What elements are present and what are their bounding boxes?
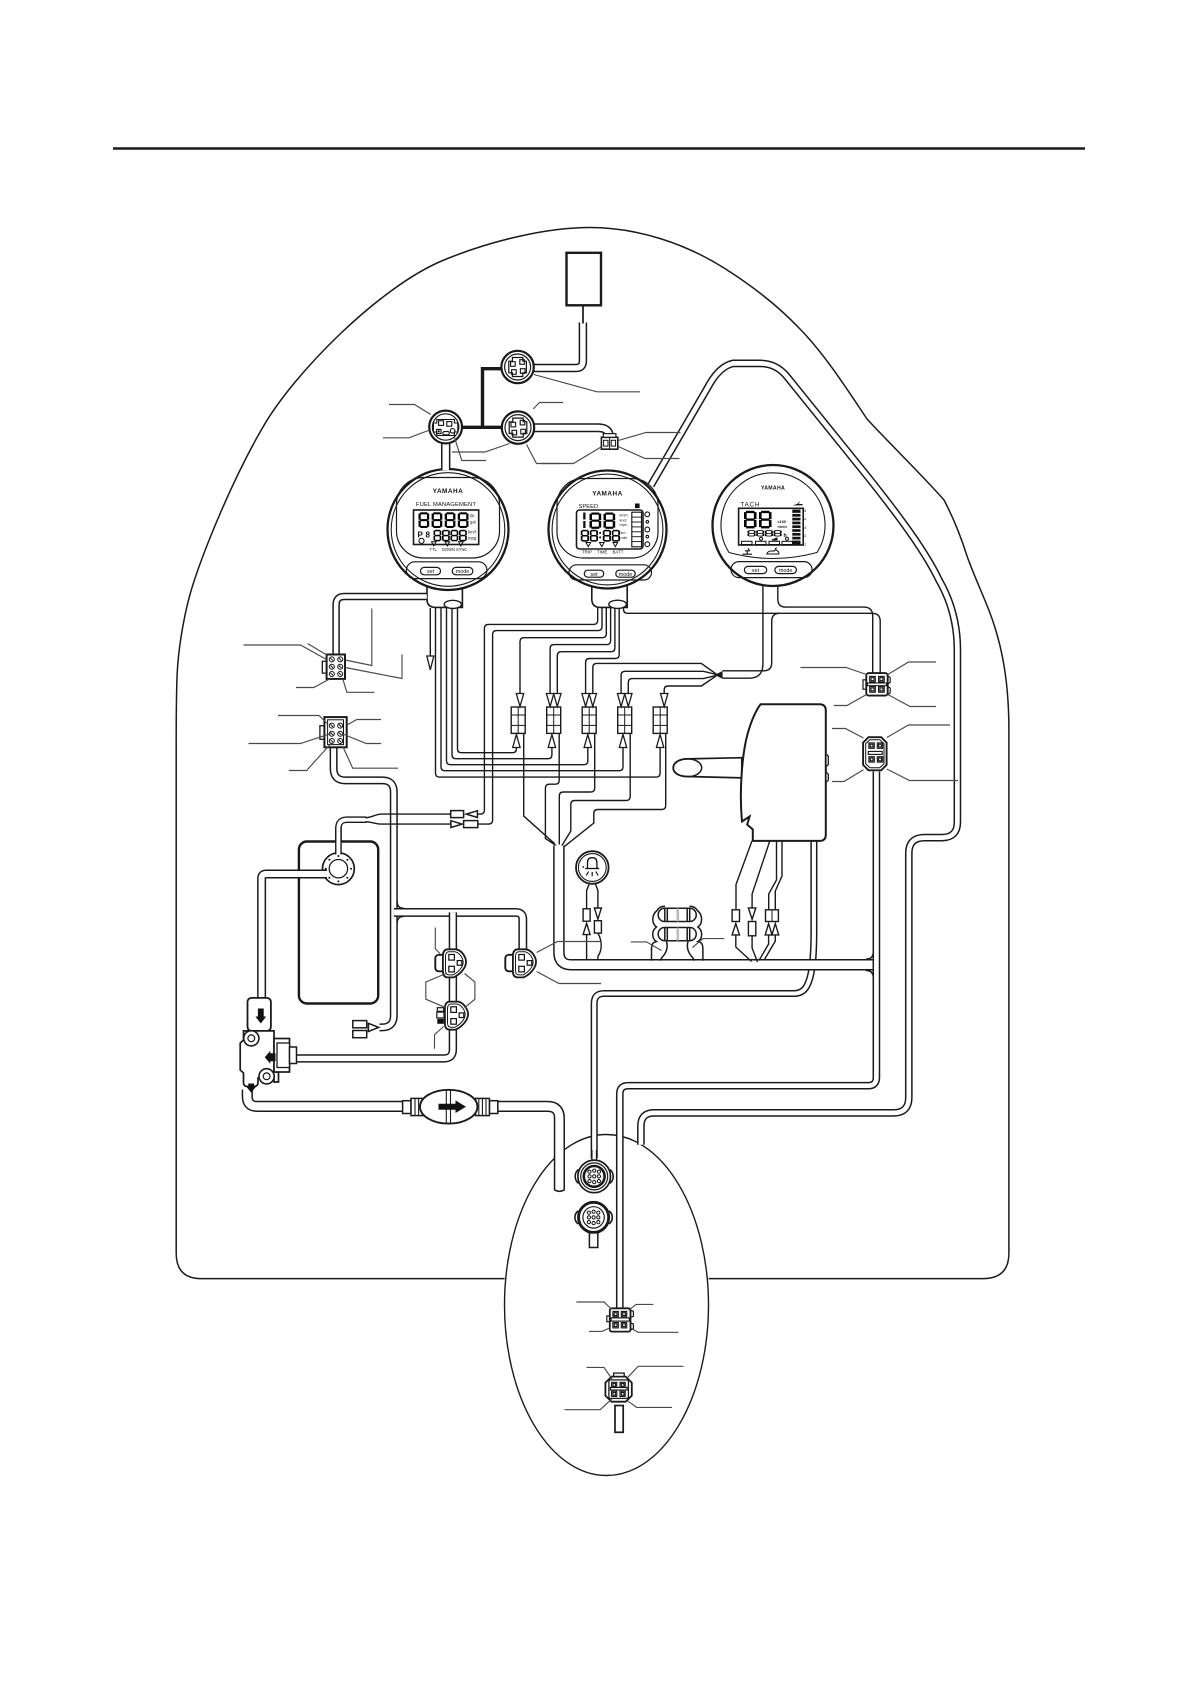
trim coupler connector A: [435, 949, 466, 977]
leader trim B bottom-right: [537, 972, 601, 984]
trim coupler connector B: [505, 949, 536, 977]
leader E2 bottom-right: [628, 1401, 672, 1407]
svg-text:l/h: l/h: [470, 514, 475, 519]
round connector RC2 (fuel gauge plug): [429, 411, 462, 444]
leader CN2 bottom-right: [343, 746, 398, 768]
wire: thick link RC2 to RC3: [462, 426, 503, 429]
svg-text:•1: •1: [803, 542, 806, 546]
leader trim A vertical: [435, 928, 440, 954]
wire: fuel hose sensor to primer bulb: [247, 1090, 403, 1107]
wire: battery cable remote control to round connector R1: [594, 841, 814, 1158]
horn mate bullet female: [594, 908, 601, 933]
wire: bullet column 1 lower lead to V merge: [524, 734, 555, 844]
wire: bullet column 5 lower lead to V merge: [564, 734, 665, 847]
square connector SQ (trim switch coupler): [601, 434, 617, 450]
svg-text:YAMAHA: YAMAHA: [433, 488, 463, 495]
U1 mode button: [452, 567, 473, 574]
U3 digits 88: [744, 511, 757, 529]
clamp trumpet left: [661, 942, 668, 961]
wire: tach cable Q bottom line and P inner line: [722, 613, 880, 672]
leader CN4 top-right: [887, 725, 950, 738]
mating hexagon around trim connectors A and C: [426, 974, 446, 1008]
svg-text:mode: mode: [456, 569, 470, 575]
fuel primer bulb: [403, 1090, 498, 1124]
U3 trim tilt icon: [743, 548, 753, 554]
leader CN3 bottom-left: [834, 695, 867, 706]
leader CN1 bottom-right: [343, 679, 375, 693]
wire: thick link junction up to RC1: [483, 369, 503, 428]
leader clamp right: [693, 939, 725, 948]
wire: bullet column 4 lower lead to V merge: [562, 734, 630, 846]
svg-text:r/min: r/min: [778, 525, 788, 529]
svg-text:TACH: TACH: [741, 502, 761, 509]
wire: tach cable P outer line: [722, 586, 763, 678]
U3 small digits 8888 h: [748, 530, 756, 536]
leader CN1 right-top with vertical: [345, 609, 372, 666]
bullet connector pair column 1: [511, 707, 525, 733]
wire: fuel sender fork upper lead: [366, 814, 451, 818]
wire: suction tube segment over tank edge: [289, 870, 327, 879]
U1 button well: [406, 562, 487, 579]
wire: trim cable from lower 6-pin connector to spade connector: [334, 748, 394, 1028]
round connector RC3 (extension coupler): [502, 411, 534, 443]
svg-text:BATT: BATT: [613, 550, 624, 555]
U3 mode button: [775, 566, 797, 573]
leader E1 top-right: [629, 1304, 654, 1310]
fuse capsule upper: [658, 908, 696, 921]
svg-text:DOWN: DOWN: [442, 547, 455, 552]
svg-text:set: set: [590, 572, 598, 578]
U2 digit 1: [583, 513, 585, 520]
leader CN2 right-top: [347, 720, 381, 726]
svg-text:•2: •2: [803, 534, 806, 538]
junction fillet trim branch bottom: [397, 916, 404, 923]
svg-text:x100: x100: [778, 520, 786, 524]
fuel gauge lead hollow down arrow: [427, 656, 434, 670]
horn lead bullet male: [583, 909, 590, 935]
U2 mode button: [616, 570, 635, 577]
leader SQ bottom-right: [618, 447, 679, 459]
wire: merged bundle from V down and across to vertical cable: [559, 846, 874, 965]
U2 face plate: [557, 479, 658, 559]
4-pin connector CN3 (upper, from tach): [863, 673, 890, 696]
U1 LCD bezel: [414, 510, 479, 545]
leader RC2 top-left: [389, 405, 431, 415]
leader E2 top-right: [628, 1366, 684, 1377]
fuel pickup tube fitting: [248, 998, 271, 1031]
U1 set button: [421, 567, 441, 574]
R2 stub: [589, 1233, 597, 1248]
junction fillet trim branch top: [397, 902, 404, 909]
U3 bar scale labels: [803, 509, 806, 546]
svg-text:mpg: mpg: [468, 536, 477, 541]
svg-text:set: set: [752, 568, 760, 574]
U3 trim icon: [793, 501, 803, 506]
remote control box: [673, 704, 828, 841]
wire: fuel sender fork lower lead: [366, 822, 451, 824]
boat hull outline: [176, 228, 1009, 1279]
U2 LCD bezel: [577, 510, 644, 549]
leader CN3 top-right: [888, 662, 936, 675]
wire: fuel gauge left cable to upper 6-pin connector: [336, 597, 427, 656]
leader RC3 bottom-left: [452, 444, 510, 453]
wire: fan lead 4 to bullet column 5: [664, 676, 716, 693]
wire: fuel sender electric cable to fork: [338, 820, 366, 854]
wire: trim pass-through cable through connectors A and C to flow sensor: [294, 912, 453, 1058]
U2 small digits 88:88: [581, 530, 589, 542]
svg-text:SPEED: SPEED: [579, 504, 599, 510]
remote wire a with bullets: [736, 841, 752, 909]
clamp bracket outline right: [689, 906, 703, 961]
U2 battery icon: [635, 504, 640, 509]
wire: main engine harness speed gauge to motor: [641, 363, 958, 1144]
leader CN2 bottom-left: [289, 743, 332, 771]
bullet connector pair column 3: [582, 707, 596, 733]
leader trim C: [435, 1027, 444, 1049]
round connector RC1 (main harness coupler top): [501, 351, 533, 383]
wire: fuel gauge top stem to round connector RC2: [441, 440, 450, 470]
leader CN2 top-left: [278, 716, 328, 725]
E2 stub: [615, 1406, 623, 1433]
leader clamp left: [631, 942, 662, 951]
page top rule: [113, 147, 1085, 150]
remote body side tabs: [827, 755, 829, 782]
wire: fuel sender suction tube: [262, 874, 326, 999]
U2 boot: [592, 583, 627, 607]
leader CN1 right-mid with vertical: [345, 655, 402, 679]
clamp bracket outline left: [652, 906, 666, 961]
wire: round connector RC1 cable to battery box: [534, 323, 583, 369]
U3 body circles: [713, 465, 834, 586]
remote wire c pair with wide bullet: [769, 841, 782, 910]
wire: tach cable Q top line: [778, 586, 873, 673]
svg-text:•3: •3: [803, 526, 806, 530]
U1 small digits 8888: [434, 530, 442, 542]
U2 indicator circles: [645, 512, 650, 517]
U1 LCD bottom icons: [419, 538, 424, 543]
svg-text:8: 8: [426, 531, 431, 540]
wire: fuel gauge fw5 to bullet column 5 lower: [436, 608, 661, 777]
wire: sender cable segment over tank edge: [335, 827, 342, 855]
U2 bar graph: [632, 512, 642, 547]
svg-text:SYNC: SYNC: [456, 547, 467, 552]
leader CN1 bottom-left: [296, 679, 330, 688]
U1 body circles: [388, 469, 509, 590]
fuel tank: [299, 842, 378, 1004]
outboard motor ellipse: [505, 1135, 709, 1476]
wire: fuel gauge fw4 to bullet column 4 lower: [441, 608, 623, 771]
bullet connector pair column 5: [653, 707, 667, 733]
junction fillet bundle to vertical cable top: [866, 952, 873, 959]
U3 LCD bezel: [739, 508, 804, 545]
warning horn: [576, 851, 609, 909]
U3 oil icon: [767, 548, 779, 554]
leader CN2 right-mid: [343, 734, 382, 744]
battery / main switch box: [567, 253, 602, 305]
leader E2 top-left: [587, 1367, 613, 1379]
bullet connector pair column 4: [618, 707, 632, 733]
wire: fan lead 1 to bullet column 3 right: [593, 663, 716, 693]
svg-text:TTL: TTL: [430, 547, 438, 552]
leader trim B top-right: [537, 942, 600, 953]
svg-text:mode: mode: [619, 572, 633, 578]
svg-text:km/l: km/l: [468, 530, 476, 535]
U3 LCD bottom cells: [742, 537, 793, 544]
spade terminal connector with arrow: [353, 1021, 379, 1038]
horn lead wire below: [586, 935, 588, 960]
clamp trumpet right: [687, 942, 694, 961]
U1 LCD digits 8888: [419, 512, 430, 528]
leader E2 bottom-left: [565, 1399, 613, 1410]
wire: fuel gauge fw1 to bullet column 1 lower: [458, 608, 517, 753]
svg-text:km/h: km/h: [620, 514, 628, 518]
U2 body circles: [549, 471, 667, 589]
leader RC1: [534, 375, 640, 392]
leader RC2 bottom-right: [455, 438, 487, 461]
leader CN4 top-left: [832, 729, 863, 739]
wire: speed w7 joining tach channel: [624, 608, 781, 613]
leader CN1 top-left short: [308, 644, 327, 656]
U3 bar graph dark: [792, 510, 800, 545]
leader RC3 bottom-right: [527, 445, 561, 464]
svg-text:•5: •5: [803, 509, 806, 513]
U3 button well: [731, 562, 812, 578]
horn mate wire slack loop: [598, 933, 601, 960]
wire: battery single lead: [582, 306, 584, 324]
fuse capsule lower: [658, 928, 696, 941]
motor connector E2: [605, 1373, 631, 1432]
gauge U1 fuel management meter: [388, 469, 509, 609]
U3 set button: [744, 566, 766, 573]
wire: round connector RC3 cable to square connector SQ: [534, 428, 609, 438]
wire: fuel hose primer bulb to motor: [497, 1106, 559, 1189]
round connector R1 (main harness to motor): [575, 1160, 613, 1193]
remote control lever: [673, 758, 742, 778]
gauge U3 tachometer: [713, 465, 834, 586]
leader SQ bottom-left: [542, 447, 602, 464]
gauge U2 speed meter: [549, 471, 667, 609]
bullet connector pair column 2: [547, 707, 561, 733]
wire: R1 cable short segment above connector: [591, 1150, 597, 1162]
leader CN4 bottom-right: [887, 769, 958, 781]
motor connector E1: [607, 1308, 634, 1331]
svg-text:YAMAHA: YAMAHA: [592, 491, 622, 498]
U1 face plate: [397, 478, 500, 559]
svg-text:•4: •4: [803, 518, 806, 522]
6-pin connector CN2 (lower): [320, 717, 347, 747]
fuel sender unit on tank: [289, 827, 354, 885]
leader E1 top-left: [576, 1302, 611, 1309]
wire: fuel gauge fw3 to bullet column 3 lower: [447, 608, 588, 765]
U2 LCD arrows: [586, 543, 618, 547]
6-pin connector CN1 (upper): [322, 655, 345, 679]
svg-text:mode: mode: [779, 568, 793, 574]
U2 set button: [584, 570, 603, 577]
wire: fuel gauge fw2 to bullet column 2 lower: [452, 608, 552, 759]
wire: speed w3 to bullet column 1: [520, 608, 606, 694]
svg-text:km: km: [621, 531, 626, 535]
wire: speed w4 to bullet column 2 left: [550, 608, 611, 694]
leader RC3 top-right: [533, 403, 563, 410]
U3 face plate: [721, 473, 825, 559]
svg-text:TRIP: TRIP: [582, 550, 592, 555]
svg-text:knot: knot: [620, 518, 627, 522]
svg-text:TIME: TIME: [597, 550, 608, 555]
leader E1 bottom-left: [589, 1328, 611, 1332]
U2 digits 88: [590, 513, 602, 529]
trim coupler connector C: [437, 1002, 468, 1030]
U1 boot: [427, 584, 462, 607]
svg-text:mph: mph: [620, 523, 627, 527]
leader CN1 top-left long: [244, 645, 327, 660]
junction fillet bundle to vertical cable bottom: [866, 971, 873, 978]
wire: speed w6 to bullet column 3 left: [586, 608, 620, 694]
leader RC2 left: [383, 430, 431, 438]
wire: fuel gauge lead with down arrow: [429, 608, 431, 656]
round connector R2 (motor pigtail): [575, 1202, 612, 1247]
fuel hose open end: [554, 1190, 565, 1192]
wire: speed w2 to fuel sender coupler lower: [478, 608, 602, 824]
wire: bullet column 3 lower lead to V merge: [559, 734, 594, 845]
harness clamp with fuse capsules: [652, 906, 703, 961]
svg-text:FUEL MANAGEMENT: FUEL MANAGEMENT: [416, 502, 476, 508]
remote control body: [741, 704, 826, 841]
svg-text:gal: gal: [470, 520, 476, 525]
remote wire b with bullets: [752, 841, 770, 908]
wire: fan lead 3 to bullet column 4 right: [628, 675, 716, 693]
fan joint solder point: [714, 671, 722, 679]
U2 button well: [569, 565, 652, 580]
wire: trim branch to connector B: [394, 912, 523, 949]
leader E1 bottom-right: [631, 1328, 679, 1332]
horn bell icon: [588, 858, 597, 869]
fuel sender coupler upper: rect and left-pointing arrow: [451, 811, 478, 818]
svg-text:mile: mile: [621, 536, 628, 540]
leader CN3 top-left: [801, 668, 867, 675]
wire: bullet column 2 lower lead to V merge: [545, 734, 559, 846]
wire: fan lead 2 to bullet column 4 left: [621, 671, 716, 693]
leader SQ top-right: [618, 433, 680, 441]
wire: speed w1 to fuel sender coupler upper: [478, 608, 598, 814]
4-pin connector CN4 (lower, to motor loom): [863, 737, 887, 770]
fuel flow sensor assembly: [240, 1031, 296, 1093]
fuel sender coupler lower: right-pointing arrow and rect: [451, 821, 478, 828]
wire: cable from lower 4-pin connector down, across and into motor connector E1: [620, 772, 877, 1308]
leader CN2 mid-left: [249, 734, 331, 744]
wire: speed w5 to bullet column 2 right: [557, 608, 615, 694]
leader CN3 bottom-right: [888, 695, 936, 707]
leader CN4 bottom-left: [832, 770, 863, 782]
svg-text:set: set: [427, 569, 435, 575]
svg-text:YAMAHA: YAMAHA: [761, 486, 785, 492]
